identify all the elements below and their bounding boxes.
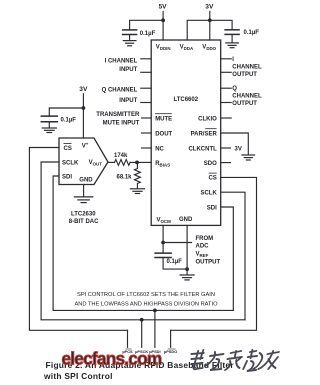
svg-text:0.1µF: 0.1µF [244,30,260,36]
svg-text:INPUT: INPUT [119,67,137,73]
svg-text:CHANNEL: CHANNEL [232,94,262,100]
wire SDI bus right [221,207,234,310]
wire 3V rail VDDA to C2 [187,20,232,40]
svg-text:3V: 3V [79,86,88,93]
wire uP bus stub 4 [170,330,172,347]
svg-text:with SPI Control: with SPI Control [43,371,113,381]
svg-text:Q: Q [232,86,237,92]
svg-text:68.1k: 68.1k [117,175,133,181]
pin Q channel output 1 [221,87,232,89]
wire R1 to RBIAS [130,161,137,163]
wire to C3 [49,108,83,115]
pin CLKIO stub [221,117,232,119]
pin Q channel input 1 [141,87,151,89]
node 5V junction [161,18,165,22]
ground under GND pin [180,275,194,280]
svg-text:VDDA: VDDA [180,45,194,52]
node stub2 junction [140,318,144,322]
svg-text:Q CHANNEL: Q CHANNEL [102,88,138,94]
wire uP bus stub 1 [127,330,129,347]
wire 3V drop to VDDO [209,12,211,41]
DAC U2 LTC2630 body [59,138,108,185]
svg-text:3V: 3V [235,146,242,152]
wire uP bus stub 3 [154,310,156,347]
svg-text:GND: GND [79,178,93,184]
svg-text:INPUT: INPUT [119,98,137,104]
svg-text:MUTE INPUT: MUTE INPUT [103,121,140,127]
svg-text:µPSDO: µPSDO [164,349,177,354]
ground under PAR/SER [242,155,255,160]
svg-text:CLKCNTL: CLKCNTL [188,146,217,152]
svg-text:VDDO: VDDO [202,45,216,52]
node 3V junction [208,18,212,22]
ground under C1 [123,41,136,46]
svg-text:PAR/SER: PAR/SER [191,131,218,137]
svg-text:OUTPUT: OUTPUT [232,101,257,107]
svg-text:LTC2630: LTC2630 [71,211,96,217]
watermark chinese brush characters [188,350,279,371]
wire 5V drop to VDDIN [162,12,164,41]
svg-text:elecfans.com: elecfans.com [62,349,162,369]
wire GND pin down [186,225,188,274]
svg-text:0.1µF: 0.1µF [140,31,156,37]
svg-text:VREF: VREF [196,252,209,259]
pin SDO stub [221,162,231,164]
wire VOCM down [162,225,164,252]
pin CLKCNTL stub to 3V [221,147,231,149]
node RBIAS junction [135,161,139,165]
wire VOUT to resistor [108,161,115,163]
capacitor C2 0.1uF [225,30,239,35]
pin I channel output 1 [221,58,232,60]
wire 5V rail to C1 [130,20,164,29]
pin I channel input 2 [141,71,151,73]
node GND junction [185,267,189,271]
svg-text:MUTE: MUTE [155,116,172,122]
svg-text:OUTPUT: OUTPUT [196,260,221,266]
ground under C2 [226,43,239,48]
svg-text:5V: 5V [159,4,168,11]
svg-text:SCLK: SCLK [62,161,79,167]
svg-text:GND: GND [179,217,193,223]
svg-text:CLKIO: CLKIO [198,116,217,122]
wire DAC SDI bus left [53,176,233,310]
resistor R1 174k [115,160,131,166]
svg-text:TRANSMITTER: TRANSMITTER [96,112,140,118]
node VOCM junction [161,241,165,245]
resistor R2 68.1k [135,162,141,188]
svg-text:I CHANNEL: I CHANNEL [105,59,138,65]
wire DAC GND to ground [83,185,85,197]
overline MUTE [155,112,172,115]
node stub3 junction [153,309,157,313]
svg-text:AND THE LOWPASS AND HIGHPASS D: AND THE LOWPASS AND HIGHPASS DIVISION RA… [74,301,218,307]
svg-text:SDI: SDI [207,205,217,211]
capacitor C1 0.1uF [123,30,137,35]
svg-text:V+: V+ [82,142,89,150]
wire C2 to ground [231,34,233,42]
svg-text:NC: NC [155,146,164,152]
svg-text:3V: 3V [205,4,214,11]
svg-text:CS: CS [64,146,72,152]
svg-text:VOCM: VOCM [157,218,172,225]
svg-text:OUTPUT: OUTPUT [232,72,257,78]
svg-text:SCLK: SCLK [200,191,217,197]
op-amp U1 LTC6602 filter IC body [151,40,221,225]
ground under R2 [130,189,144,194]
pin Q channel input 2 [141,102,151,104]
svg-text:ADC: ADC [196,244,210,250]
capacitor C3 0.1uF [41,116,57,122]
wire C4 to GND pin net [163,258,187,270]
pin I channel input 1 [141,58,151,60]
wire CS bus right [171,177,257,330]
svg-text:CHANNEL: CHANNEL [232,64,262,70]
wire PAR/SER to ground [221,133,249,155]
overline DAC CS [64,142,72,145]
svg-text:RBIAS: RBIAS [155,161,170,168]
ground under DAC [74,197,92,203]
ground under C3 [42,128,56,133]
svg-text:8-BIT DAC: 8-BIT DAC [69,219,99,225]
capacitor C4 0.1uF [155,253,171,257]
wire uP bus stub 2 [141,320,143,348]
svg-text:SDO: SDO [204,161,217,167]
svg-text:DOUT: DOUT [155,131,172,137]
svg-text:VDDIN: VDDIN [156,45,171,52]
wire DAC SCLK bus left [41,162,245,320]
svg-text:SPI CONTROL OF LTC6602 SETS TH: SPI CONTROL OF LTC6602 SETS THE FILTER G… [77,292,215,298]
caption figure 2 [43,360,234,381]
pin RBIAS wire [137,161,151,163]
wire C3 to ground [48,122,50,128]
overline SER [205,127,216,130]
svg-text:FROM: FROM [196,236,214,242]
pin DOUT stub [142,132,152,134]
overline CS [209,172,217,175]
svg-text:LTC6602: LTC6602 [174,97,199,103]
svg-text:SDI: SDI [62,174,72,180]
wire 3V to DAC V+ [82,94,84,138]
svg-text:174k: 174k [114,153,128,159]
node V+ junction [82,106,86,110]
svg-text:I: I [232,57,234,63]
wire SCLK bus right [221,192,245,320]
wire DAC CS bus left [29,148,127,331]
pin I channel output 2 [221,71,232,73]
svg-text:CS: CS [208,176,216,182]
wire VOCM to ADC label [163,242,191,244]
svg-text:VOUT: VOUT [89,160,103,167]
svg-text:0.1µF: 0.1µF [61,117,77,123]
svg-text:0.1µF: 0.1µF [167,259,183,265]
pin Q channel output 2 [221,102,232,104]
wire MUTE input [142,117,152,119]
wire C1 to ground [129,35,131,41]
pin NC stub [142,147,152,149]
